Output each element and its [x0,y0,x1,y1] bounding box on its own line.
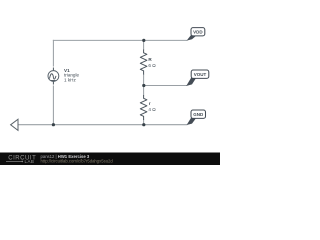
svg-text:r: r [149,101,151,106]
svg-text:4 Ω: 4 Ω [148,107,156,112]
svg-text:GND: GND [193,112,204,117]
svg-text:triangle: triangle [64,73,80,78]
svg-text:6 Ω: 6 Ω [148,63,156,68]
svg-text:1 kHz: 1 kHz [64,78,76,83]
svg-text:http://circuitlab.com/c/b7r5da: http://circuitlab.com/c/b7r5dahgx5su2d [41,158,114,163]
svg-text:VDD: VDD [193,30,203,35]
svg-text:V1: V1 [64,68,70,73]
svg-text:VOUT: VOUT [194,72,207,77]
svg-text:LAB: LAB [25,159,35,164]
